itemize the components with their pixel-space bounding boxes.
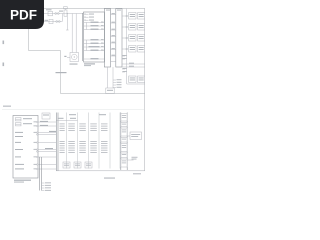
wire rail 1	[28, 13, 84, 15]
pin J3 2	[42, 185, 45, 187]
pin strip PS1	[121, 113, 127, 171]
pin strip cell 5	[121, 144, 127, 152]
label cell A1	[60, 124, 65, 131]
labels pins down	[117, 79, 122, 87]
wire W17	[38, 156, 56, 158]
label footer box 1	[64, 164, 69, 167]
label PB1	[14, 180, 31, 183]
label PS1 lower	[132, 157, 138, 160]
splice S2	[122, 26, 128, 28]
label U1 pin numbers	[101, 22, 104, 51]
label M2	[131, 134, 140, 137]
pin PB1 9	[37, 164, 38, 165]
wire W13	[38, 134, 56, 136]
label K3	[43, 115, 49, 116]
splice S4	[122, 48, 128, 50]
wire W11	[38, 125, 56, 127]
pin stub B right 2	[122, 58, 125, 60]
connector strip J2	[56, 113, 58, 171]
wire table header line	[56, 120, 77, 122]
pin strip cell 2	[121, 123, 127, 127]
terminal box T5a	[129, 76, 136, 83]
pin strip cell 3	[121, 128, 127, 136]
label cell A2	[68, 124, 75, 131]
wire down P2	[112, 67, 114, 88]
label PB1 pin numbers	[34, 121, 37, 169]
label cell B1	[60, 141, 65, 153]
pin stub down 4	[113, 87, 116, 89]
pin stub down 3	[113, 84, 116, 86]
table column line 2	[77, 113, 79, 169]
pin strip cell 7	[121, 159, 127, 167]
label cell B2	[68, 141, 75, 153]
node J1	[67, 13, 68, 14]
pin stub B right 3	[122, 68, 125, 70]
labels pin strip	[122, 115, 126, 163]
label cell B4	[90, 141, 97, 153]
relay K1	[48, 11, 53, 15]
wire top border	[28, 8, 145, 10]
pin PB1 10	[37, 168, 38, 169]
footer box 2	[74, 162, 81, 168]
pin 2 U1	[84, 17, 88, 18]
module U1	[82, 12, 104, 62]
label cell B3	[79, 141, 86, 153]
pin J3 4	[42, 190, 45, 192]
footer box 1	[63, 162, 70, 168]
label W15	[45, 148, 53, 149]
pin 1 U1	[84, 14, 88, 15]
label cooling fan	[56, 72, 67, 73]
pin 3 U1	[84, 20, 88, 21]
pin PB1 2	[37, 125, 38, 126]
wire P1-P2 row8	[111, 61, 116, 63]
label T2a	[130, 25, 135, 28]
label T5a	[130, 78, 135, 81]
pin stub B right 1	[122, 55, 125, 57]
pin stub down 1	[113, 79, 116, 81]
splice S3	[122, 37, 128, 39]
wire B4	[84, 50, 104, 52]
table column line 6	[119, 113, 121, 169]
label B3	[89, 46, 100, 47]
label cell B5	[101, 141, 108, 153]
wire B5	[84, 58, 104, 60]
terminal box T5b	[138, 76, 145, 83]
wire right row2	[122, 66, 145, 68]
wire drop from J1	[66, 14, 69, 31]
wire P1-P2 row2	[111, 22, 116, 24]
labels P1-P2 rows	[112, 13, 115, 55]
wire motor feed right	[75, 14, 77, 53]
module box M2	[130, 132, 142, 140]
pin PB1 1	[37, 121, 38, 122]
labels stubs B	[123, 55, 127, 72]
label cell A4	[90, 124, 97, 131]
terminal box T3a	[129, 35, 136, 42]
label table header	[58, 114, 107, 119]
wire P1-P2 row1	[111, 14, 116, 16]
terminal box T4b	[138, 46, 145, 53]
connector strip P2	[116, 9, 122, 68]
wire group B bracket	[86, 40, 88, 51]
footer box 3	[85, 162, 92, 168]
wire W16	[38, 151, 56, 153]
fuse F1 symbol top	[64, 7, 68, 9]
wire A1	[84, 22, 104, 24]
table column line 4	[98, 113, 100, 169]
label T2b	[139, 25, 144, 28]
label T4a	[130, 47, 135, 50]
wire M2 feed	[127, 135, 130, 137]
wire B1	[84, 39, 104, 41]
pin strip cell 4	[121, 138, 127, 143]
motor M1 left stub	[67, 57, 70, 59]
table column line 1	[66, 113, 68, 169]
wire rail 2	[28, 14, 62, 22]
label footer box 3	[86, 164, 91, 167]
label B4	[91, 50, 99, 51]
wire P1-P2 row4	[111, 36, 116, 38]
wire right border	[144, 9, 146, 172]
wire left step border	[29, 28, 145, 94]
wire W18	[38, 164, 56, 166]
label F10	[23, 118, 32, 119]
terminal box T2b	[138, 24, 145, 31]
splice S1	[122, 15, 128, 17]
pin stub B right 4	[122, 71, 125, 73]
wire P1-P2 row3	[111, 29, 116, 31]
label W12	[49, 131, 56, 132]
label F11	[23, 123, 32, 124]
pin PB1 3	[37, 132, 38, 133]
connector C1	[55, 13, 60, 15]
table column line 5	[109, 113, 111, 169]
wire P1-P2 row5	[111, 42, 116, 44]
label A3	[91, 29, 99, 30]
label P1 P2	[106, 9, 121, 12]
fuse F10	[16, 118, 22, 121]
terminal box T4a	[129, 46, 136, 53]
svg-text:PDF: PDF	[10, 8, 37, 23]
pin PB1 4	[37, 134, 38, 135]
wire W10	[38, 121, 56, 123]
wire P1-P2 row7	[111, 55, 116, 57]
wire W19	[38, 168, 56, 170]
label right rows	[129, 63, 134, 67]
relay K3	[42, 113, 50, 119]
label PB1 internal rows	[15, 132, 24, 170]
table column line 3	[88, 113, 90, 169]
label rail1	[46, 9, 63, 11]
label footer right	[133, 173, 141, 174]
label B5	[91, 58, 99, 59]
pin J3 1	[42, 182, 45, 184]
pin PB1 7	[37, 151, 38, 152]
connector strip P1	[104, 9, 110, 68]
label B1	[91, 39, 99, 40]
label T4b	[139, 47, 144, 50]
label C3	[107, 90, 113, 91]
label W11	[40, 125, 48, 126]
wire terminal rail	[127, 9, 145, 85]
label zone mark 2	[3, 63, 5, 67]
terminal box T3b	[138, 35, 145, 42]
label B2	[91, 43, 99, 44]
wire right row1	[122, 63, 145, 65]
wire W15	[38, 149, 56, 151]
relay K2	[49, 19, 53, 23]
label cell A3	[79, 124, 86, 131]
pin PB1 5	[37, 142, 38, 143]
terminal box T1a	[129, 13, 136, 20]
connector C2	[56, 21, 61, 23]
labels J3 pins	[45, 182, 51, 190]
wire down P1	[107, 67, 109, 88]
label T5b	[139, 78, 144, 81]
label T1b	[139, 14, 144, 17]
wire B3	[84, 46, 104, 48]
wire A3	[84, 29, 104, 31]
connector strip J3	[40, 157, 42, 191]
label T3b	[139, 36, 144, 39]
label footer page number	[104, 178, 115, 179]
label motor	[64, 56, 77, 65]
power block PB1	[13, 116, 38, 179]
wire B2	[84, 43, 104, 45]
fuse F11	[16, 123, 22, 126]
wire motor feed left	[71, 14, 73, 53]
label T3a	[130, 36, 135, 39]
connector C3	[106, 88, 114, 94]
label A1	[91, 22, 99, 23]
wire PS1 lower stub	[127, 159, 133, 161]
terminal box T1b	[138, 13, 145, 20]
pin PB1 6	[37, 149, 38, 150]
label W10	[40, 121, 48, 122]
wire P1-P2 row6	[111, 49, 116, 51]
PDF badge	[0, 0, 149, 198]
label U1 pins	[89, 14, 94, 21]
pin PB1 8	[37, 156, 38, 157]
label T1a	[130, 14, 135, 17]
pin strip cell 6	[121, 153, 127, 158]
fuse F1	[64, 9, 67, 16]
label rail2	[45, 20, 49, 21]
motor M1	[70, 53, 79, 62]
label A2	[91, 25, 99, 26]
label footer box 2	[75, 164, 80, 167]
pin stub down 2	[113, 82, 116, 84]
wire fold line	[2, 108, 145, 110]
wire group A bracket	[86, 23, 88, 30]
pin J3 3	[42, 187, 45, 189]
wire W14	[38, 142, 56, 144]
pin strip cell 1	[121, 114, 127, 122]
wire A2	[84, 25, 104, 27]
wire W12	[38, 132, 56, 134]
label cell A5	[101, 124, 108, 131]
label zone mark 1	[3, 41, 5, 45]
label page title	[3, 106, 11, 107]
label U1	[84, 63, 95, 66]
terminal box T2a	[129, 24, 136, 31]
wire bottom border	[56, 170, 145, 172]
